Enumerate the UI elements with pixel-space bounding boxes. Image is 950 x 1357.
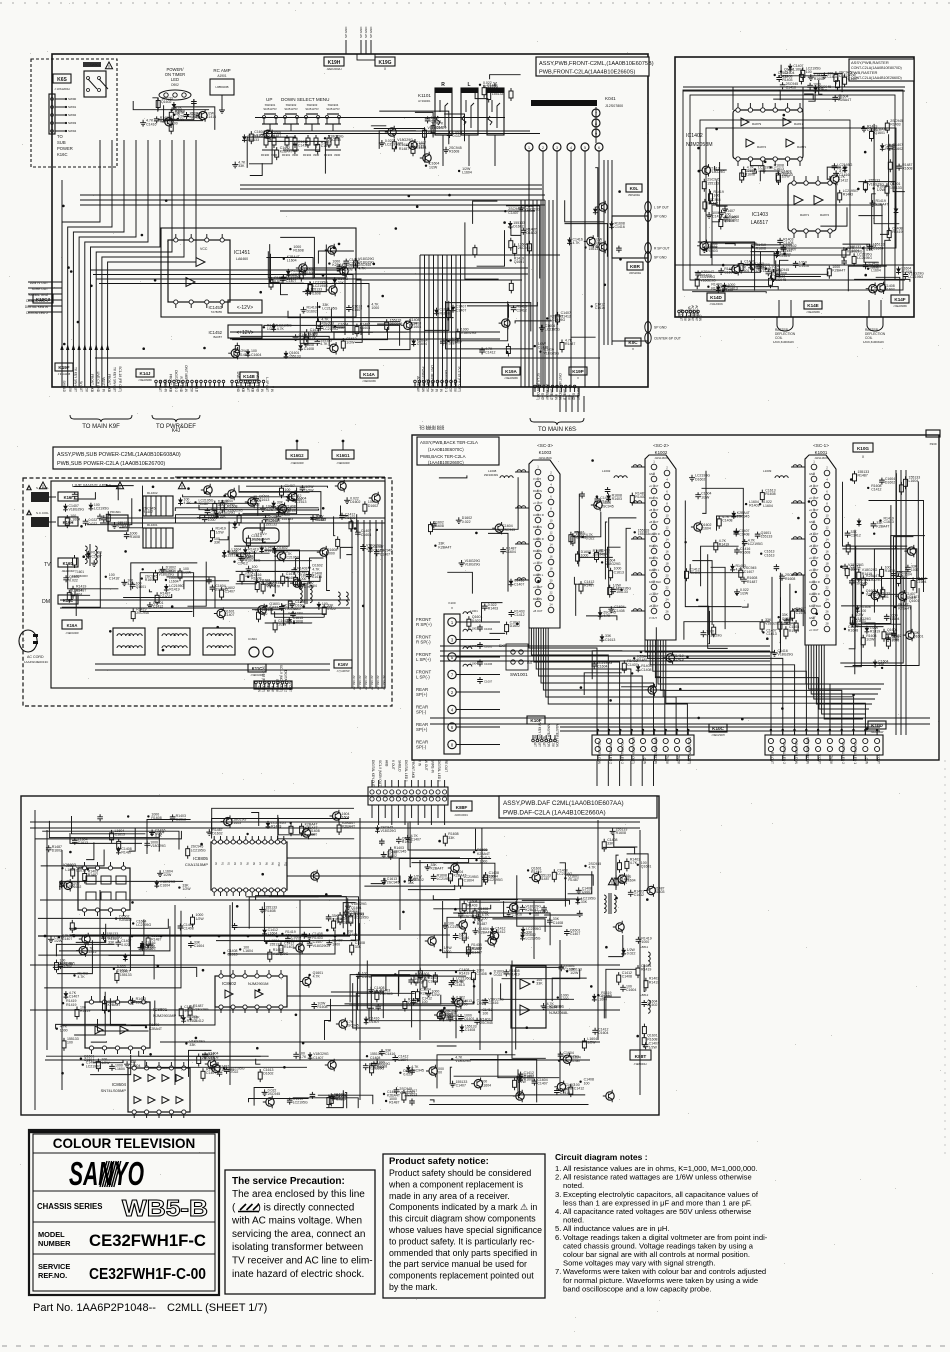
svg-text:28: 28 bbox=[825, 622, 829, 626]
svg-text:TV-5V: TV-5V bbox=[551, 738, 555, 748]
svg-text:R1487: R1487 bbox=[600, 552, 610, 556]
svg-text:1/2W: 1/2W bbox=[163, 873, 172, 877]
svg-text:K4J: K4J bbox=[172, 428, 181, 434]
svg-text:C1007: C1007 bbox=[484, 680, 493, 684]
svg-text:1/2W: 1/2W bbox=[305, 488, 314, 492]
svg-text:K2BA4T: K2BA4T bbox=[876, 203, 890, 207]
svg-text:K2BA4T: K2BA4T bbox=[421, 991, 435, 995]
svg-text:D1602: D1602 bbox=[263, 1072, 273, 1076]
svg-text:C1407: C1407 bbox=[69, 995, 79, 999]
svg-text:L SP(+): L SP(+) bbox=[416, 657, 431, 662]
svg-text:C1604: C1604 bbox=[916, 580, 926, 584]
svg-text:SC1-18 (FR OUT): SC1-18 (FR OUT) bbox=[262, 666, 266, 692]
svg-text:155133: 155133 bbox=[269, 943, 281, 947]
svg-text:V18G29G: V18G29G bbox=[245, 558, 261, 562]
svg-text:K6S: K6S bbox=[57, 77, 67, 83]
svg-text:R1403: R1403 bbox=[271, 825, 281, 829]
svg-text:C1604: C1604 bbox=[428, 980, 438, 984]
svg-text:+5V: +5V bbox=[567, 394, 571, 401]
svg-text:LC2195G: LC2195G bbox=[385, 143, 400, 147]
svg-text:LC2195G: LC2195G bbox=[748, 542, 763, 546]
svg-text:C1407: C1407 bbox=[225, 590, 235, 594]
svg-text:1/2W: 1/2W bbox=[346, 341, 355, 345]
svg-text:R1419: R1419 bbox=[509, 973, 519, 977]
svg-text:IC1403: IC1403 bbox=[752, 212, 768, 218]
svg-text:C1416: C1416 bbox=[298, 144, 308, 148]
svg-text:155133: 155133 bbox=[227, 554, 239, 558]
svg-text:C1407: C1407 bbox=[472, 951, 482, 955]
svg-text:ON/T MER LED-IN: ON/T MER LED-IN bbox=[654, 737, 658, 765]
svg-text:C1005: C1005 bbox=[484, 645, 493, 649]
svg-text:R1900: R1900 bbox=[261, 153, 270, 157]
svg-text:V18G29G: V18G29G bbox=[605, 562, 621, 566]
svg-text:J 9EA099W: J 9EA099W bbox=[806, 310, 820, 314]
svg-text:R1608: R1608 bbox=[130, 535, 140, 539]
svg-text:R1403: R1403 bbox=[402, 840, 412, 844]
svg-text:D1602: D1602 bbox=[526, 231, 536, 235]
svg-text:100: 100 bbox=[860, 609, 866, 613]
svg-text:21: 21 bbox=[652, 580, 656, 584]
svg-text:R1608: R1608 bbox=[434, 524, 444, 528]
svg-text:MASTER LDDN: MASTER LDDN bbox=[794, 741, 798, 765]
svg-text:C1604: C1604 bbox=[411, 325, 421, 329]
svg-text:X939: X939 bbox=[929, 442, 936, 446]
svg-text:Q1601: Q1601 bbox=[136, 585, 147, 589]
svg-text:MASTER LDDN: MASTER LDDN bbox=[555, 724, 559, 748]
svg-text:C1408: C1408 bbox=[739, 533, 749, 537]
svg-text:100: 100 bbox=[806, 70, 812, 74]
svg-text:PWB.DAF-C2LA (1AA4B10E2660A: PWB.DAF-C2LA (1AA4B10E2660A) bbox=[503, 810, 606, 817]
svg-text:D1602: D1602 bbox=[52, 848, 62, 852]
svg-text:R1419: R1419 bbox=[641, 968, 651, 972]
svg-text:1/2W: 1/2W bbox=[570, 971, 579, 975]
svg-text:0.022: 0.022 bbox=[627, 952, 636, 956]
svg-text:W OUT: W OUT bbox=[424, 760, 428, 771]
svg-text:C1416: C1416 bbox=[206, 115, 216, 119]
svg-text:11: 11 bbox=[537, 525, 540, 529]
svg-text:Components indicated by a mark: Components indicated by a mark ⚠ in bbox=[389, 1202, 537, 1212]
svg-text:155133: 155133 bbox=[281, 517, 293, 521]
svg-text:J 9EA099W: J 9EA099W bbox=[138, 378, 152, 382]
svg-text:R1902: R1902 bbox=[303, 153, 312, 157]
svg-text:4.7K: 4.7K bbox=[312, 567, 320, 571]
svg-text:C1416: C1416 bbox=[512, 913, 522, 917]
svg-text:1/2W: 1/2W bbox=[184, 1008, 193, 1012]
svg-text:D1602: D1602 bbox=[160, 595, 170, 599]
svg-text:NJM2058M: NJM2058M bbox=[686, 142, 713, 148]
svg-text:K2BA4T: K2BA4T bbox=[119, 918, 133, 922]
svg-text:2.: 2. bbox=[555, 1173, 561, 1182]
svg-text:1/2W: 1/2W bbox=[267, 327, 276, 331]
svg-text:D1602: D1602 bbox=[869, 265, 879, 269]
svg-text:S1051175V: S1051175V bbox=[263, 107, 277, 111]
svg-text:C1604: C1604 bbox=[597, 665, 607, 669]
svg-text:K19G: K19G bbox=[378, 60, 391, 66]
svg-text:C1412: C1412 bbox=[517, 308, 527, 312]
svg-text:R1403: R1403 bbox=[843, 193, 853, 197]
svg-text:SC1-9 (MON OUT): SC1-9 (MON OUT) bbox=[688, 737, 692, 764]
svg-text:K14E: K14E bbox=[807, 303, 819, 308]
svg-text:SP GND: SP GND bbox=[654, 326, 667, 330]
svg-text:AC-RELAY: AC-RELAY bbox=[691, 305, 695, 322]
svg-text:AC CORD: AC CORD bbox=[27, 655, 44, 659]
svg-text:P11: P11 bbox=[283, 862, 286, 867]
svg-text:D1602: D1602 bbox=[307, 309, 317, 313]
svg-text:1/2W: 1/2W bbox=[701, 495, 710, 499]
svg-text:C1407: C1407 bbox=[744, 570, 754, 574]
svg-text:AKB: AKB bbox=[241, 386, 245, 392]
svg-text:9: 9 bbox=[595, 132, 597, 136]
svg-text:NUMBER: NUMBER bbox=[38, 1239, 71, 1248]
svg-text:SHIELD: SHIELD bbox=[563, 388, 567, 400]
svg-text:V18G29G: V18G29G bbox=[866, 593, 882, 597]
svg-text:K10D: K10D bbox=[871, 723, 883, 728]
svg-text:2SC945: 2SC945 bbox=[251, 538, 264, 542]
svg-text:R1487: R1487 bbox=[570, 1059, 580, 1063]
svg-text:C1613: C1613 bbox=[115, 833, 125, 837]
svg-text:25: 25 bbox=[812, 604, 816, 608]
svg-text:18: 18 bbox=[549, 567, 553, 571]
svg-text:R1487: R1487 bbox=[568, 878, 578, 882]
svg-text:R1419: R1419 bbox=[870, 629, 880, 633]
svg-text:Q1601: Q1601 bbox=[514, 260, 525, 264]
svg-text:R1403: R1403 bbox=[467, 903, 477, 907]
svg-text:CE32FWH1F-C-00: CE32FWH1F-C-00 bbox=[89, 1266, 206, 1283]
svg-text:R1487: R1487 bbox=[225, 503, 235, 507]
svg-text:SVRE-IN: SVRE-IN bbox=[163, 379, 167, 393]
svg-text:J2EI2003W: J2EI2003W bbox=[62, 570, 76, 573]
svg-text:L1604: L1604 bbox=[243, 949, 253, 953]
svg-text:4.7K: 4.7K bbox=[630, 861, 638, 865]
svg-text:C1412: C1412 bbox=[362, 975, 372, 979]
svg-text:POWER-LED SW: POWER-LED SW bbox=[421, 367, 425, 392]
svg-text:R1419: R1419 bbox=[66, 1003, 76, 1007]
svg-text:R1419: R1419 bbox=[531, 870, 541, 874]
svg-text:1000: 1000 bbox=[911, 568, 919, 572]
svg-text:TV-5V: TV-5V bbox=[676, 755, 680, 765]
svg-text:AC RELAY: AC RELAY bbox=[352, 675, 356, 690]
svg-text:SP GND: SP GND bbox=[654, 215, 667, 219]
svg-text:CHASSIS SERIES: CHASSIS SERIES bbox=[37, 1202, 102, 1211]
svg-text:L1604: L1604 bbox=[115, 1067, 125, 1071]
svg-text:AC-RELAY: AC-RELAY bbox=[416, 376, 420, 393]
svg-text:C1613: C1613 bbox=[764, 553, 774, 557]
svg-text:R1487: R1487 bbox=[88, 873, 98, 877]
svg-text:22: 22 bbox=[549, 591, 553, 595]
svg-text:2SC945: 2SC945 bbox=[387, 881, 400, 885]
svg-text:AC RELAY: AC RELAY bbox=[370, 675, 374, 690]
svg-text:C1407: C1407 bbox=[508, 211, 518, 215]
svg-text:this circuit diagram show comp: this circuit diagram show components bbox=[389, 1214, 536, 1224]
svg-text:J11S1460N: J11S1460N bbox=[654, 456, 667, 460]
svg-text:J2 S92001: J2 S92001 bbox=[418, 99, 431, 103]
svg-text:K2BA4T: K2BA4T bbox=[898, 607, 912, 611]
svg-text:A5V: A5V bbox=[189, 386, 193, 393]
svg-text:K19P: K19P bbox=[572, 369, 584, 374]
svg-text:R1487: R1487 bbox=[858, 474, 868, 478]
svg-text:SC1-9 (MON OUT): SC1-9 (MON OUT) bbox=[378, 760, 382, 787]
svg-text:The area enclosed by this line: The area enclosed by this line bbox=[232, 1189, 365, 1200]
svg-text:12: 12 bbox=[665, 526, 669, 530]
svg-text:UP: UP bbox=[266, 97, 272, 102]
svg-text:3300: 3300 bbox=[313, 153, 320, 157]
svg-text:SC1-18 (FR OUT): SC1-18 (FR OUT) bbox=[118, 366, 122, 392]
svg-text:C1408: C1408 bbox=[622, 975, 632, 979]
svg-text:26: 26 bbox=[665, 610, 669, 614]
svg-text:V18G29G: V18G29G bbox=[159, 573, 175, 577]
svg-text:DIGITAL LED 1: DIGITAL LED 1 bbox=[404, 760, 408, 782]
svg-text:L: L bbox=[467, 82, 470, 88]
svg-text:33K: 33K bbox=[581, 900, 588, 904]
svg-text:TV-5V: TV-5V bbox=[829, 755, 833, 765]
svg-text:V18G29G: V18G29G bbox=[524, 208, 540, 212]
svg-text:R1419: R1419 bbox=[719, 542, 729, 546]
svg-text:C1604: C1604 bbox=[598, 1031, 608, 1035]
svg-text:J2EK2002H: J2EK2002H bbox=[327, 67, 342, 71]
svg-text:R1608: R1608 bbox=[745, 173, 755, 177]
svg-text:L8811: L8811 bbox=[640, 945, 648, 949]
svg-text:100: 100 bbox=[262, 612, 268, 616]
svg-text:C1407: C1407 bbox=[456, 308, 466, 312]
svg-text:L1604: L1604 bbox=[793, 67, 803, 71]
svg-text:2SC945: 2SC945 bbox=[268, 1092, 281, 1096]
svg-text:C1416: C1416 bbox=[560, 1091, 570, 1095]
svg-text:R1487: R1487 bbox=[143, 510, 153, 514]
svg-text:155133: 155133 bbox=[890, 186, 902, 190]
svg-text:LC2195G: LC2195G bbox=[545, 327, 560, 331]
svg-text:LIVE MAINS AREA: LIVE MAINS AREA bbox=[72, 483, 112, 488]
svg-text:C1412: C1412 bbox=[712, 215, 722, 219]
svg-text:LC2195G: LC2195G bbox=[323, 327, 338, 331]
svg-text:R1487: R1487 bbox=[121, 850, 131, 854]
svg-text:C1613: C1613 bbox=[756, 269, 766, 273]
svg-text:4.7K: 4.7K bbox=[358, 266, 366, 270]
svg-text:C IN: C IN bbox=[642, 758, 646, 765]
svg-text:23: 23 bbox=[812, 592, 816, 596]
svg-text:Q1601: Q1601 bbox=[739, 269, 750, 273]
svg-text:4.7K: 4.7K bbox=[589, 866, 597, 870]
svg-text:TV KEY SW-OUT: TV KEY SW-OUT bbox=[73, 367, 77, 392]
svg-text:2SC945: 2SC945 bbox=[390, 322, 403, 326]
svg-text:DIGITAL LED 2: DIGITAL LED 2 bbox=[26, 311, 48, 315]
svg-text:1000: 1000 bbox=[480, 860, 488, 864]
svg-text:R1487: R1487 bbox=[64, 884, 74, 888]
svg-text:W OUT: W OUT bbox=[288, 681, 292, 692]
svg-text:made in any area of a receiver: made in any area of a receiver. bbox=[389, 1191, 510, 1201]
svg-text:R1608: R1608 bbox=[885, 569, 895, 573]
svg-text:STBY 5V: STBY 5V bbox=[275, 679, 279, 693]
svg-text:3300: 3300 bbox=[271, 153, 278, 157]
svg-text:33K: 33K bbox=[238, 164, 245, 168]
svg-text:L1002: L1002 bbox=[470, 627, 478, 631]
svg-text:L1004: L1004 bbox=[470, 662, 478, 666]
svg-text:4.7K: 4.7K bbox=[456, 980, 464, 984]
svg-text:4.7K: 4.7K bbox=[897, 574, 905, 578]
svg-text:4.7K: 4.7K bbox=[736, 568, 744, 572]
svg-text:C1416: C1416 bbox=[488, 1001, 498, 1005]
svg-text:Q1601: Q1601 bbox=[641, 864, 652, 868]
svg-text:A1901: A1901 bbox=[217, 74, 226, 78]
svg-text:D1602: D1602 bbox=[695, 477, 705, 481]
svg-text:24: 24 bbox=[825, 598, 829, 602]
svg-text:PWB,FRONT-C2LA(1AA4B10E2660S): PWB,FRONT-C2LA(1AA4B10E2660S) bbox=[539, 70, 636, 76]
svg-text:V18G29G: V18G29G bbox=[778, 653, 794, 657]
svg-text:19: 19 bbox=[536, 573, 540, 577]
svg-text:100: 100 bbox=[436, 1071, 442, 1075]
svg-text:V18G29G: V18G29G bbox=[765, 622, 781, 626]
svg-text:J 9EA1195: J 9EA1195 bbox=[58, 372, 71, 376]
svg-text:D1602: D1602 bbox=[117, 969, 127, 973]
svg-text:V18G29G: V18G29G bbox=[193, 1008, 209, 1012]
svg-text:155133: 155133 bbox=[289, 355, 301, 359]
svg-text:SW1904: SW1904 bbox=[328, 103, 339, 107]
svg-text:K2BA4T: K2BA4T bbox=[342, 825, 356, 829]
svg-text:R1487: R1487 bbox=[711, 286, 721, 290]
svg-text:1/2W: 1/2W bbox=[278, 622, 287, 626]
svg-text:R1608: R1608 bbox=[293, 249, 303, 253]
svg-text:0.022: 0.022 bbox=[453, 134, 462, 138]
svg-text:D1602: D1602 bbox=[647, 1003, 657, 1007]
svg-text:100: 100 bbox=[850, 568, 856, 572]
svg-text:Y IN: Y IN bbox=[260, 386, 264, 393]
svg-text:R1608: R1608 bbox=[740, 551, 750, 555]
svg-text:R1403: R1403 bbox=[612, 497, 622, 501]
svg-text:0.022: 0.022 bbox=[462, 520, 471, 524]
svg-text:R1608: R1608 bbox=[848, 629, 858, 633]
svg-text:C1604: C1604 bbox=[332, 918, 342, 922]
svg-text:LC2195G: LC2195G bbox=[550, 318, 565, 322]
svg-text:VCC: VCC bbox=[200, 247, 208, 251]
svg-text:R1419: R1419 bbox=[291, 939, 301, 943]
svg-text:20: 20 bbox=[665, 574, 669, 578]
svg-text:K16A: K16A bbox=[67, 623, 78, 628]
svg-text:C1407: C1407 bbox=[313, 1056, 323, 1060]
svg-text:LA6517: LA6517 bbox=[751, 220, 768, 226]
svg-text:V OUT: V OUT bbox=[817, 754, 821, 764]
svg-text:4.7K: 4.7K bbox=[277, 327, 285, 331]
svg-text:1/2W: 1/2W bbox=[182, 887, 191, 891]
svg-text:J00S200H: J00S200H bbox=[629, 271, 641, 275]
svg-text:C1407: C1407 bbox=[144, 947, 154, 951]
svg-text:C1604: C1604 bbox=[417, 342, 427, 346]
svg-text:18: 18 bbox=[665, 562, 669, 566]
svg-text:GND: GND bbox=[541, 393, 545, 401]
svg-text:<SC-1>: <SC-1> bbox=[813, 443, 829, 448]
svg-text:C1407: C1407 bbox=[452, 341, 462, 345]
svg-text:3.: 3. bbox=[555, 1190, 561, 1199]
svg-text:R1403: R1403 bbox=[749, 504, 759, 508]
svg-text:C IN: C IN bbox=[698, 315, 702, 322]
svg-text:CONT-C2LA(1AA4B10E2660D): CONT-C2LA(1AA4B10E2660D) bbox=[851, 76, 902, 80]
svg-text:J 9EA099W: J 9EA099W bbox=[504, 376, 518, 380]
svg-text:AC-RELAY: AC-RELAY bbox=[545, 384, 549, 401]
svg-text:33K: 33K bbox=[526, 931, 533, 935]
svg-text:10: 10 bbox=[549, 519, 553, 523]
svg-text:11: 11 bbox=[813, 520, 816, 524]
svg-text:33K: 33K bbox=[108, 941, 115, 945]
svg-text:SW90: SW90 bbox=[68, 97, 77, 101]
svg-text:V18G29G: V18G29G bbox=[273, 952, 289, 956]
svg-text:K19A: K19A bbox=[505, 369, 517, 374]
svg-text:+C OUT: +C OUT bbox=[809, 628, 819, 632]
svg-text:155133: 155133 bbox=[492, 92, 504, 96]
svg-text:R1608: R1608 bbox=[902, 167, 912, 171]
svg-text:LC2195G: LC2195G bbox=[322, 307, 337, 311]
svg-text:1/2W: 1/2W bbox=[587, 1041, 596, 1045]
svg-text:15: 15 bbox=[812, 544, 816, 548]
svg-text:V18G29G: V18G29G bbox=[465, 563, 481, 567]
svg-text:V18G29G: V18G29G bbox=[69, 507, 85, 511]
svg-text:L1604: L1604 bbox=[169, 580, 179, 584]
svg-text:18: 18 bbox=[825, 562, 829, 566]
svg-text:V18G29G: V18G29G bbox=[455, 1059, 471, 1063]
svg-text:R1608: R1608 bbox=[151, 816, 161, 820]
svg-text:NJM2901MP: NJM2901MP bbox=[153, 1013, 176, 1018]
svg-text:19: 19 bbox=[812, 568, 816, 572]
svg-text:R1403: R1403 bbox=[284, 945, 294, 949]
svg-text:C1604: C1604 bbox=[626, 988, 636, 992]
svg-text:!: ! bbox=[29, 511, 30, 515]
svg-text:K10G: K10G bbox=[857, 446, 869, 451]
svg-text:MASTER LDDN: MASTER LDDN bbox=[546, 724, 550, 748]
svg-text:to product safety. It is parti: to product safety. It is particularly re… bbox=[389, 1236, 535, 1246]
svg-text:J 9EK920W: J 9EK920W bbox=[362, 379, 376, 383]
svg-text:R1403: R1403 bbox=[312, 936, 322, 940]
svg-text:SW1901: SW1901 bbox=[265, 103, 276, 107]
svg-text:+B OUT: +B OUT bbox=[533, 609, 543, 613]
svg-text:C1604: C1604 bbox=[160, 884, 170, 888]
svg-text:SVRE-IN: SVRE-IN bbox=[431, 760, 435, 774]
svg-text:C1416: C1416 bbox=[416, 145, 426, 149]
svg-text:14: 14 bbox=[825, 538, 829, 542]
svg-text:C1604: C1604 bbox=[547, 1006, 557, 1010]
svg-text:W OUT: W OUT bbox=[79, 381, 83, 392]
svg-text:PWB,SUB POWER-C2LA (1AA0B10: PWB,SUB POWER-C2LA (1AA0B10E26700) bbox=[57, 461, 165, 467]
svg-text:L1001: L1001 bbox=[470, 609, 478, 613]
svg-text:R: R bbox=[441, 82, 445, 88]
svg-text:DM: DM bbox=[42, 599, 50, 605]
svg-text:R1403: R1403 bbox=[890, 123, 900, 127]
svg-text:C1416: C1416 bbox=[146, 122, 156, 126]
svg-text:100: 100 bbox=[174, 112, 180, 116]
svg-text:V18G29G: V18G29G bbox=[60, 962, 76, 966]
svg-text:2SC945: 2SC945 bbox=[464, 915, 477, 919]
svg-text:SP GND: SP GND bbox=[364, 26, 368, 38]
svg-text:3: 3 bbox=[556, 146, 558, 150]
svg-text:R1487: R1487 bbox=[565, 342, 575, 346]
svg-text:33K: 33K bbox=[338, 281, 345, 285]
svg-text:155133: 155133 bbox=[120, 973, 132, 977]
svg-text:V18G29G: V18G29G bbox=[381, 829, 397, 833]
svg-text:Y IN: Y IN bbox=[270, 386, 274, 393]
svg-text:whose values have special sign: whose values have special significance bbox=[388, 1225, 542, 1235]
svg-text:K2BA4T: K2BA4T bbox=[108, 1003, 122, 1007]
svg-text:V18G29G: V18G29G bbox=[254, 134, 270, 138]
svg-text:33K: 33K bbox=[355, 945, 362, 949]
svg-text:1/2W: 1/2W bbox=[477, 1002, 486, 1006]
svg-text:C1416: C1416 bbox=[799, 264, 809, 268]
svg-text:C1613: C1613 bbox=[76, 869, 86, 873]
svg-text:100: 100 bbox=[482, 916, 488, 920]
svg-text:24: 24 bbox=[549, 603, 553, 607]
svg-text:ON/T MER LED-IN: ON/T MER LED-IN bbox=[430, 365, 434, 393]
svg-text:L1604: L1604 bbox=[65, 868, 75, 872]
svg-text:D1602: D1602 bbox=[350, 500, 360, 504]
svg-text:with AC mains voltage. When: with AC mains voltage. When bbox=[231, 1216, 362, 1227]
svg-text:RA872: RA872 bbox=[820, 213, 830, 217]
svg-text:100: 100 bbox=[67, 1041, 73, 1045]
svg-text:Q1601: Q1601 bbox=[464, 1017, 475, 1021]
